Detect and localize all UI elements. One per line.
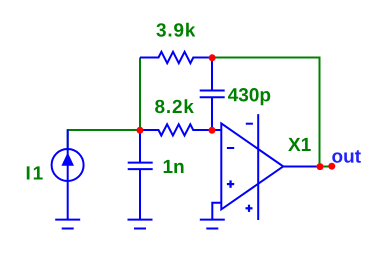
capacitor 1n leads: [139, 130, 141, 163]
ground of 1n capacitor: [128, 219, 153, 221]
value label 8.2k: [155, 99, 194, 113]
resistor R 3.9k body: [140, 52, 212, 63]
junction dot at output: [317, 163, 324, 170]
op-amp X1 triangle: [221, 123, 283, 209]
op-amp inverting input minus sign: [227, 147, 234, 149]
wire: green top feedback from 430p node to right corner and down to output: [213, 58, 320, 167]
op-amp non-inverting input plus sign: [227, 183, 234, 185]
wire: green output stub to out node: [320, 166, 332, 168]
op-amp positive supply plus sign: [246, 207, 253, 209]
node B junction dot: [209, 127, 216, 134]
current source I1 arrow: [61, 153, 74, 166]
capacitor 1n plates: [128, 162, 153, 164]
ground of op-amp plus input: [200, 219, 225, 221]
wire: minus input from node B: [212, 129, 221, 131]
ground of I1: [55, 219, 80, 221]
wire: green net from I1 top to node A: [68, 130, 140, 148]
value label 430p: [228, 88, 270, 105]
op-amp negative supply minus sign: [246, 123, 253, 125]
junction dot at 3.9k / 430p / feedback: [209, 54, 216, 61]
wire: plus input to ground: [212, 203, 221, 220]
capacitor 430p plates: [200, 90, 225, 92]
resistor R 8.2k body: [140, 124, 212, 135]
wire: op-amp output: [283, 166, 320, 168]
current source I1 circle: [52, 149, 84, 181]
value label 3.9k: [156, 23, 195, 37]
reference label I1: [27, 166, 43, 179]
reference label X1: [288, 138, 311, 151]
capacitor 430p leads: [211, 58, 213, 91]
node name out: [332, 150, 361, 163]
current source I1 lead: [67, 130, 69, 220]
node A junction dot: [137, 127, 144, 134]
node out pin dot: [328, 163, 335, 170]
wire: green vertical node A up to 3.9k: [139, 58, 141, 131]
value label 1n: [164, 160, 184, 173]
op-amp X1 power rail bar: [257, 114, 259, 220]
